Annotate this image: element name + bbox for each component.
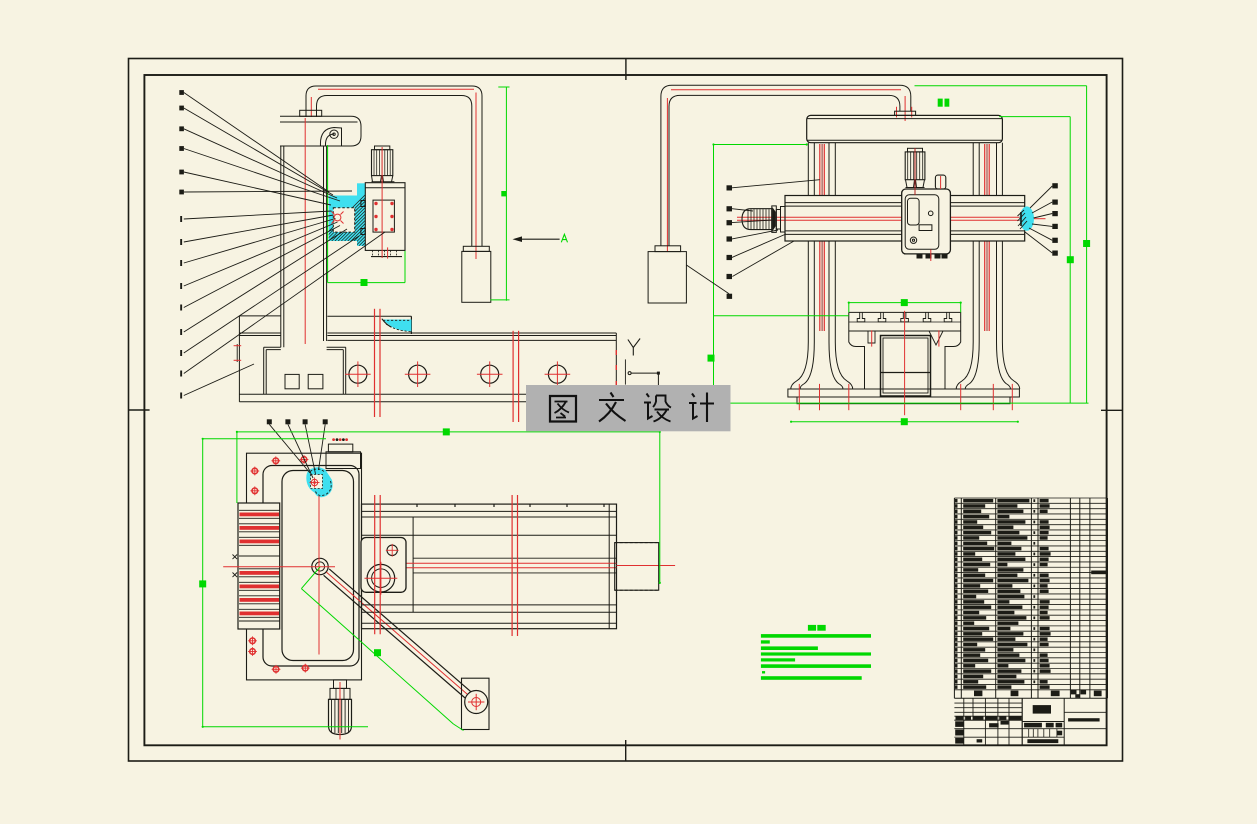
side view: stand body <box>849 331 961 389</box>
top view: red section pair 2 <box>511 495 513 636</box>
side view: gantry spindle box <box>902 189 951 254</box>
side view: counterweight cap <box>655 246 681 252</box>
side view: rail end hatch <box>1018 210 1025 216</box>
front view: plinth window left <box>285 374 299 388</box>
top view: green angle dimension <box>301 567 320 589</box>
front view: green dimension text square <box>501 191 506 196</box>
front view: pipe red centerline vertical left <box>310 97 312 117</box>
front view: counterweight cylinder <box>462 251 491 302</box>
front view: motor bottom bell <box>372 176 395 182</box>
front view: slideway cover top <box>327 315 411 317</box>
side view: leader lines right <box>1025 186 1052 253</box>
front view: chip guard cyan wedge <box>383 320 411 332</box>
front view: saddle cyan strip <box>357 183 365 246</box>
side view: workpiece stand top plate <box>849 312 961 331</box>
front view: leader reference squares <box>179 90 184 398</box>
side view: pipe red line horizontal <box>671 89 901 91</box>
front view: knee cyan block <box>329 196 357 242</box>
top view: arm end circle <box>465 691 488 714</box>
front view: surface finish symbol <box>628 339 640 356</box>
watermark glyph JI <box>689 394 698 419</box>
inner border frame <box>144 75 1106 745</box>
top view: mount plate small bore <box>387 545 397 555</box>
side view: crossrail <box>785 196 1025 242</box>
front view: box bottom feet dashed <box>371 256 402 258</box>
centering tick top <box>625 59 627 81</box>
front view: leader lines fan <box>184 93 385 396</box>
top view: table outer rounded plate <box>263 466 359 667</box>
front view: column plinth <box>264 347 346 394</box>
side view: pipe outer wall <box>661 85 911 246</box>
top view: output shaft <box>615 543 659 591</box>
top view: arm end block <box>462 678 490 729</box>
front view: leader elbow at bed end <box>631 373 658 401</box>
side view: leader lines left <box>686 180 819 294</box>
top view: red crosshair horizontal <box>223 566 335 568</box>
top view: pivot circle <box>312 558 328 574</box>
technical requirements title <box>808 625 816 631</box>
front view: column left wall <box>280 146 282 347</box>
top view: handle red centerline <box>339 682 341 740</box>
side view: box motor <box>905 152 925 180</box>
front view: bed section line red pair 2 <box>512 331 514 422</box>
side view: pipe inner wall <box>669 95 900 245</box>
front view: bed end edge with red dashes <box>615 333 617 385</box>
side view: top beam <box>807 115 1003 142</box>
watermark glyph TU <box>550 396 576 422</box>
side view: stand inner box <box>881 336 931 397</box>
front view: spindle red target circle <box>334 214 341 221</box>
top view: feed housing <box>362 504 617 629</box>
front view: green dim extension right of head <box>404 188 406 283</box>
side view: counterweight cylinder <box>648 252 686 303</box>
side view: stand red center ticks <box>871 330 873 346</box>
front view: cap top tab <box>300 110 322 116</box>
title block texts <box>955 705 1099 744</box>
side view: leader squares right <box>1052 183 1058 256</box>
side view: spindle box feet <box>917 254 923 259</box>
top view: table inner rounded plate <box>282 471 354 661</box>
front view: counterweight pipe outer wall <box>306 86 482 247</box>
top view: pocket red target <box>311 479 317 485</box>
front view: counterweight pipe inner wall <box>317 96 472 247</box>
top view: swing arm <box>324 575 466 698</box>
top view: housing red centerlines <box>362 562 617 564</box>
front view: bed top lines <box>327 332 616 334</box>
front view: headstock door panel <box>373 200 394 232</box>
front view: green height dimension line <box>505 87 507 301</box>
side view: motor shaft flange <box>772 206 777 233</box>
parts list table grid <box>954 498 1107 698</box>
top view: clamp screws dots <box>332 438 335 441</box>
front view: pipe red centerline vertical right <box>475 93 477 260</box>
front view: column right wall <box>323 146 325 341</box>
side view: stand notch left <box>868 331 875 343</box>
parts list text bars <box>955 499 1106 689</box>
top view: red section pair 1 <box>374 495 376 634</box>
front view: headstock box <box>365 183 405 251</box>
front view: door red screws <box>374 202 377 205</box>
front view: bed bolt circles <box>349 365 367 383</box>
top view: table base plate <box>247 453 362 680</box>
top view: housing shaft silhouette lines <box>413 557 616 559</box>
front view: head red centerline <box>381 147 383 258</box>
front view: bed bottom lines <box>239 393 616 395</box>
centering tick left <box>128 409 149 411</box>
side view: feed motor <box>742 209 772 230</box>
front view: pulley wheel <box>330 130 338 138</box>
top view: leader lines <box>269 424 310 473</box>
side view: machine base plate <box>788 389 1020 397</box>
front view: motor top cap <box>375 146 390 150</box>
front view: green dim extension along column <box>327 145 329 283</box>
top view: handle stem <box>334 680 347 689</box>
front view: slideway cover right edge <box>410 316 412 334</box>
watermark box <box>526 385 731 431</box>
front view: hidden dashed edge <box>624 359 626 384</box>
front view: column red centerline <box>304 118 306 344</box>
side view: crossrail red centerlines <box>737 216 1030 218</box>
side view: pipe red line vertical <box>666 98 668 252</box>
front view: base left slab <box>239 315 280 317</box>
front view: box side tabs <box>361 201 365 207</box>
front view: plinth window right <box>308 374 323 388</box>
centering tick bottom <box>625 740 627 761</box>
centering tick right <box>1101 409 1123 411</box>
front view: pulley bracket <box>320 128 341 147</box>
technical requirements lines <box>761 634 871 680</box>
front view: spindle motor body <box>372 150 393 176</box>
top view: datum cross ticks <box>233 555 238 578</box>
side view: green dimensions <box>708 86 1091 425</box>
front view: knee inner dashed pocket <box>333 208 354 232</box>
side view: right column <box>972 143 974 196</box>
top view: leader squares <box>267 419 272 424</box>
side view: base red ticks <box>798 384 800 410</box>
side view: knob cylinder <box>935 175 945 189</box>
top view: mount plate big bore <box>367 564 395 592</box>
top view: swing arm red centerline <box>326 572 468 695</box>
top view: motor mount plate <box>361 538 406 593</box>
front view: spindle red tick marks <box>332 212 335 215</box>
front view: section arrow head <box>513 236 523 242</box>
front view: feet red tick <box>387 247 389 258</box>
top view: red bolt circles <box>273 458 279 464</box>
front view: counterweight cap <box>463 246 489 251</box>
front view: green width dimension line <box>328 282 405 284</box>
watermark glyph WEN <box>599 393 626 422</box>
side view: pipe joint red centerline <box>904 96 906 121</box>
top view: housing top edge ticks <box>416 504 418 507</box>
front view: green letter A <box>561 234 567 242</box>
front view: column cap head <box>280 116 361 146</box>
side view: T-slots <box>857 312 865 321</box>
side view: rail end cyan blob <box>1020 206 1034 230</box>
side view: main red centerline <box>904 311 906 415</box>
side view: right column red guideways <box>984 144 986 196</box>
outer border frame <box>129 59 1123 762</box>
top view: saddle ribbed block <box>238 503 280 629</box>
top view: green dimensions <box>199 428 661 730</box>
top view: cyan pocket blob <box>306 467 332 497</box>
watermark glyph SHE <box>644 394 653 419</box>
parts list header labels <box>974 691 982 697</box>
title block grid <box>954 698 1107 745</box>
top view: clamp block upper <box>326 452 361 469</box>
side view: leader squares left <box>727 185 733 299</box>
side view: left column red guideways <box>819 144 821 196</box>
side view: stand V notch right <box>929 331 943 345</box>
side view: pipe joint tab <box>895 111 916 115</box>
front view: pipe red centerline horizontal <box>318 88 474 90</box>
top view: red crosshair vertical <box>318 496 320 655</box>
front view: section arrow A line <box>516 238 560 240</box>
top view: handle knob <box>329 699 352 734</box>
front view: base red datum ticks <box>236 344 238 362</box>
side view: left column <box>807 143 809 196</box>
front view: base left wall <box>238 316 240 402</box>
side view: green part label <box>938 99 943 107</box>
front view: bed section line red pair 1 <box>374 309 376 417</box>
